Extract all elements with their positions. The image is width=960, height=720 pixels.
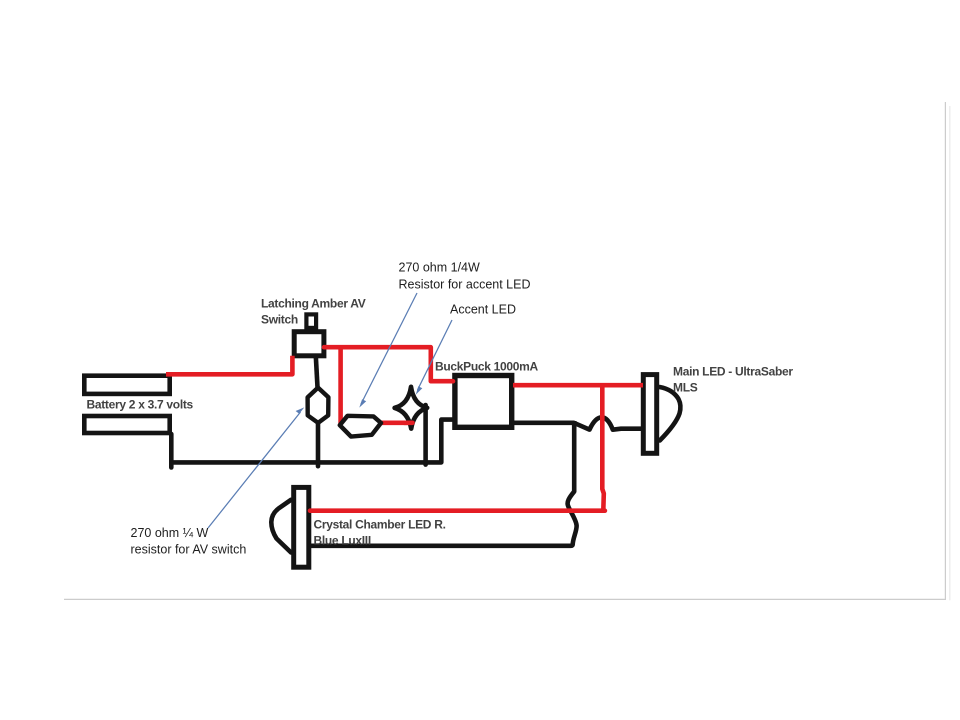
svg-text:Blue LuxIII: Blue LuxIII bbox=[314, 533, 371, 547]
photo frame right edge bbox=[944, 102, 946, 600]
label latching amber AV switch bbox=[261, 297, 366, 327]
svg-text:Latching Amber AV: Latching Amber AV bbox=[261, 297, 366, 311]
crystal chamber LED body bbox=[294, 487, 309, 567]
annotation accent resistor bbox=[399, 260, 531, 291]
wire buckpuck down to crystal LED bbox=[311, 421, 577, 546]
svg-text:Switch: Switch bbox=[261, 313, 298, 327]
main LED lens bbox=[660, 387, 681, 441]
red wire drop to accent resistor bbox=[338, 348, 343, 426]
resistor R1 for accent LED (hexagon) bbox=[340, 416, 381, 437]
main LED body bbox=[643, 375, 656, 454]
wire hexagon to ground bus bbox=[316, 421, 321, 466]
red wire switch to buckpuck bbox=[324, 347, 453, 381]
red wire battery to switch bbox=[166, 356, 292, 375]
accent LED star bbox=[395, 387, 428, 429]
photo frame right shadow bbox=[949, 106, 951, 600]
switch button nub bbox=[306, 314, 316, 328]
red wire over star bottom tip bbox=[404, 420, 413, 425]
red wire crystal LED horizontal bbox=[310, 508, 605, 513]
battery cell 1 bbox=[84, 376, 169, 394]
red wire buckpuck to main LED bbox=[513, 383, 643, 388]
callout arrow to accent resistor bbox=[359, 293, 417, 408]
svg-text:270 ohm 1/4W: 270 ohm 1/4W bbox=[399, 260, 480, 274]
crystal chamber LED lens bbox=[271, 500, 291, 553]
photo frame bottom edge bbox=[64, 598, 946, 600]
callout arrow to AV resistor bbox=[208, 407, 304, 528]
BuckPuck box U1 bbox=[455, 376, 512, 428]
black wire buckpuck to main LED with hop bbox=[513, 417, 644, 429]
svg-text:270 ohm ¼ W: 270 ohm ¼ W bbox=[131, 526, 209, 540]
ground bus wire bbox=[169, 420, 453, 463]
callout arrow to accent LED bbox=[416, 320, 452, 395]
red wire resistor to accent LED bbox=[381, 420, 412, 425]
wire switch pin down bbox=[316, 356, 318, 389]
resistor R2 for AV switch (hexagon) bbox=[308, 388, 329, 423]
wire battery to bus bbox=[169, 434, 174, 468]
annotation AV resistor bbox=[131, 526, 247, 557]
red wire down to crystal LED bbox=[602, 385, 604, 511]
switch body bbox=[294, 332, 324, 356]
label main LED bbox=[673, 364, 793, 394]
svg-text:Battery 2 x 3.7 volts: Battery 2 x 3.7 volts bbox=[87, 398, 194, 412]
svg-text:Crystal Chamber LED R.: Crystal Chamber LED R. bbox=[314, 517, 446, 531]
svg-text:BuckPuck 1000mA: BuckPuck 1000mA bbox=[435, 359, 539, 373]
battery cell 2 bbox=[84, 416, 169, 433]
wire star to bus bbox=[423, 405, 428, 465]
svg-text:Accent LED: Accent LED bbox=[450, 303, 516, 317]
svg-text:resistor for AV switch: resistor for AV switch bbox=[131, 543, 247, 557]
svg-text:MLS: MLS bbox=[673, 381, 698, 395]
svg-text:Resistor for accent LED: Resistor for accent LED bbox=[399, 277, 531, 291]
label crystal chamber LED bbox=[314, 517, 446, 547]
svg-text:Main LED - UltraSaber: Main LED - UltraSaber bbox=[673, 364, 793, 378]
